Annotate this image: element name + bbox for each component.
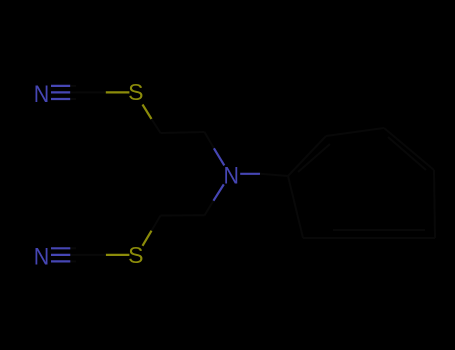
bond S1-C2 sulfur half (olive diagonal) (143, 105, 152, 120)
ring edge C8-C9 (326, 128, 384, 136)
bond C7-S2 dark half (76, 254, 106, 256)
triple bond N3#C7 carbon half (dark) (70, 248, 76, 261)
triple bond N1#C1 blue half (three lines) (51, 86, 70, 99)
ring edge C11-C12 (303, 237, 435, 239)
bond C5-C6 (dark horizontal) (161, 214, 205, 216)
bond C3-N2 carbon half (dark) (205, 132, 214, 148)
svg-text:N: N (34, 243, 49, 269)
bond S1-C2 carbon half (dark) (152, 119, 161, 133)
bond N2-C5 carbon half (dark) (205, 201, 214, 216)
bond N2-C4 carbon half (dark) (260, 174, 288, 176)
bond C2-C3 (dark horizontal) (161, 132, 205, 133)
ring edge C9-C10 (384, 128, 434, 170)
bond C6-S2 sulfur half (olive diagonal) (143, 231, 152, 246)
ring edge C4-C8 (288, 136, 326, 176)
benzene ring (faint dark carbon skeleton) (288, 128, 435, 238)
bond C6-S2 carbon half (dark) (152, 216, 161, 231)
bond C1-S1 dark half (76, 91, 106, 93)
svg-text:N: N (223, 162, 238, 188)
bond C1-S1 sulfur half (olive) (106, 91, 130, 93)
ring edge C12-C4 (288, 176, 303, 238)
triple bond N1#C1 carbon half (dark) (70, 86, 76, 99)
svg-text:S: S (128, 79, 143, 105)
aromatic inner line 1 (298, 144, 330, 172)
triple bond N3#C7 blue half (three lines) (51, 248, 70, 261)
bond N2-C5 nitrogen half (blue diagonal, bottom chain) (213, 184, 223, 200)
bond C7-S2 sulfur half (olive) (106, 254, 130, 256)
aromatic inner line 2 (388, 137, 426, 170)
bond N2-C4 nitrogen half (blue horizontal to phenyl) (240, 173, 260, 175)
bond C3-N2 nitrogen half (blue diagonal) (214, 148, 224, 165)
aromatic inner line 3 (333, 229, 425, 231)
svg-text:N: N (34, 81, 49, 107)
ring edge C10-C11 (434, 170, 435, 238)
svg-text:S: S (128, 242, 143, 268)
